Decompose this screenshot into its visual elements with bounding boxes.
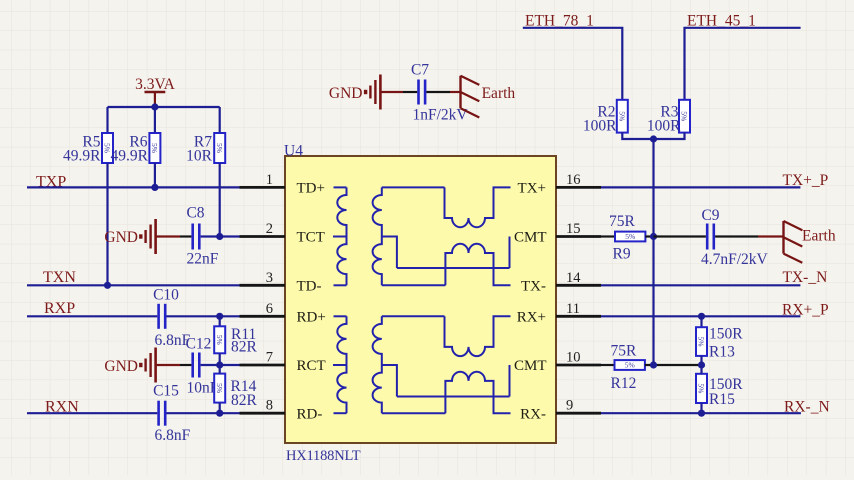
resistor R3 xyxy=(679,100,690,133)
TX secondary bottom wire xyxy=(382,284,446,286)
RX primary winding lower coil xyxy=(337,365,346,413)
svg-text:5%: 5% xyxy=(625,361,635,370)
svg-text:RX+: RX+ xyxy=(517,310,546,326)
wire 3.3VA rail xyxy=(108,106,220,108)
wire R6 top lead xyxy=(154,107,156,133)
pin 7 lead xyxy=(240,364,286,367)
pin 15 lead xyxy=(556,235,601,238)
svg-text:C7: C7 xyxy=(411,62,429,79)
wire C9 to Earth xyxy=(715,235,758,237)
resistor R2 xyxy=(617,100,628,133)
wire to C7 left plate xyxy=(403,91,417,93)
svg-text:7: 7 xyxy=(266,350,273,366)
resistor R7 xyxy=(214,133,225,163)
wire R13 bottom lead xyxy=(700,356,702,365)
junction R15/RX- xyxy=(698,410,705,417)
earth symbol (C9) xyxy=(784,221,803,263)
wire R5 top lead xyxy=(106,107,108,133)
capacitor C9 xyxy=(707,224,714,250)
svg-text:RD+: RD+ xyxy=(297,310,326,326)
resistor R9 xyxy=(615,232,645,242)
svg-text:3.3VA: 3.3VA xyxy=(135,76,176,93)
svg-text:C15: C15 xyxy=(153,383,179,400)
svg-text:14: 14 xyxy=(566,270,581,286)
svg-text:CMT: CMT xyxy=(514,358,547,374)
svg-text:TX+_P: TX+_P xyxy=(783,172,829,189)
resistor R6 xyxy=(149,133,160,163)
RX secondary centre-tap wire xyxy=(382,365,397,397)
junction 3.3VA rail xyxy=(151,103,158,110)
wire R7 bottom lead to TCT node xyxy=(219,163,221,237)
svg-text:5%: 5% xyxy=(697,337,706,347)
wire TX+ row xyxy=(601,186,800,188)
wire R14 bottom lead xyxy=(219,403,221,414)
svg-text:5%: 5% xyxy=(215,383,224,393)
TX common-mode choke upper winding xyxy=(445,187,511,227)
wire to Earth symbol (C9) xyxy=(758,235,784,237)
wire R11 bottom lead xyxy=(219,353,221,365)
junction R12/centre vertical xyxy=(650,361,657,368)
svg-text:8: 8 xyxy=(266,398,273,414)
svg-text:22nF: 22nF xyxy=(187,251,219,268)
svg-text:R12: R12 xyxy=(611,375,637,392)
wire to C8 left plate xyxy=(180,235,191,237)
wire R9 to junction xyxy=(645,235,653,237)
pin 2 lead xyxy=(240,235,286,238)
wire GND to C12 xyxy=(156,364,180,366)
resistor R12 xyxy=(615,360,645,370)
resistor R14 xyxy=(214,374,225,403)
RX primary winding upper coil xyxy=(337,316,346,365)
svg-text:GND: GND xyxy=(104,229,138,246)
svg-text:Earth: Earth xyxy=(482,85,516,102)
svg-text:3: 3 xyxy=(266,270,273,286)
svg-text:11: 11 xyxy=(566,301,580,317)
junction R9/C9/centre vertical xyxy=(650,233,657,240)
svg-text:75R: 75R xyxy=(609,213,636,230)
svg-text:5%: 5% xyxy=(215,143,224,153)
TX primary winding stub wires xyxy=(333,187,347,285)
RX secondary winding coil xyxy=(373,316,382,413)
svg-text:U4: U4 xyxy=(284,143,303,160)
TX secondary top wire xyxy=(382,186,445,188)
op-amp/IC U4 HX1188NLT block body xyxy=(285,156,556,443)
svg-text:6.8nF: 6.8nF xyxy=(155,427,191,444)
wire GND to C8 xyxy=(156,235,180,237)
junction R2/R3 xyxy=(650,135,657,142)
svg-text:75R: 75R xyxy=(611,343,638,360)
wire R6 bottom lead to TXP xyxy=(154,163,156,187)
wire C10 to pin 6 xyxy=(167,315,240,317)
svg-text:100R: 100R xyxy=(583,118,617,135)
pin 1 lead xyxy=(240,186,286,189)
capacitor C7 xyxy=(419,80,426,105)
wire R14 top lead xyxy=(219,365,221,374)
RX secondary top wire xyxy=(382,315,445,317)
wire ETH_78_1 xyxy=(523,28,623,100)
wire centre vertical to CMT nodes xyxy=(652,139,654,365)
pin 14 lead xyxy=(556,284,601,287)
svg-text:TX+: TX+ xyxy=(518,181,546,197)
svg-text:1nF/2kV: 1nF/2kV xyxy=(413,107,469,124)
svg-text:10R: 10R xyxy=(186,148,213,165)
svg-text:RCT: RCT xyxy=(297,358,326,374)
power symbol 3.3VA xyxy=(145,92,166,107)
wire R12 to junctions xyxy=(645,364,702,366)
svg-text:Earth: Earth xyxy=(802,228,836,245)
svg-text:C12: C12 xyxy=(186,336,212,353)
wire R15 top lead xyxy=(700,365,702,374)
svg-text:9: 9 xyxy=(566,398,573,414)
svg-text:10: 10 xyxy=(566,350,581,366)
svg-text:5%: 5% xyxy=(150,143,159,153)
TX common-mode choke lower winding xyxy=(445,244,510,285)
ground GND (C8) xyxy=(139,219,156,254)
TX primary winding upper coil xyxy=(337,187,346,236)
svg-text:CMT: CMT xyxy=(514,230,547,246)
junction R11/R14/pin7 xyxy=(216,361,223,368)
svg-text:GND: GND xyxy=(329,85,363,102)
junction R7/C8/pin2 xyxy=(216,233,223,240)
svg-text:6: 6 xyxy=(266,301,273,317)
svg-text:TCT: TCT xyxy=(297,230,325,246)
wire R11 top lead xyxy=(219,316,221,326)
resistor R15 xyxy=(696,374,707,403)
TX CMT tap horizontal wire xyxy=(397,267,510,269)
svg-text:1: 1 xyxy=(266,172,273,188)
junction R13/R15 xyxy=(698,361,705,368)
RX CMT vertical wire xyxy=(509,365,511,397)
svg-text:TD+: TD+ xyxy=(297,181,325,197)
wire R5 bottom lead to TXN xyxy=(106,163,108,285)
wire C15 to pin 8 xyxy=(167,412,240,414)
svg-text:82R: 82R xyxy=(231,339,258,356)
svg-text:RD-: RD- xyxy=(297,407,323,423)
RX CMT tap horizontal wire xyxy=(397,396,510,398)
earth symbol (C7) xyxy=(461,76,480,118)
wire to Earth symbol xyxy=(450,91,461,93)
svg-text:C10: C10 xyxy=(153,287,179,304)
svg-text:TXN: TXN xyxy=(43,269,76,286)
RX primary winding stub wires xyxy=(333,316,347,413)
svg-text:HX1188NLT: HX1188NLT xyxy=(286,448,361,464)
pin 9 lead xyxy=(556,412,601,415)
pin 8 lead xyxy=(240,412,286,415)
wire C12 to pin 7 xyxy=(201,364,240,366)
wire ETH_45_1 xyxy=(685,28,801,100)
TX secondary winding coil xyxy=(373,187,382,285)
wire TXP xyxy=(27,186,240,188)
wire GND to C7 xyxy=(380,91,403,93)
svg-text:TX-_N: TX-_N xyxy=(783,269,828,286)
capacitor C8 xyxy=(193,224,200,250)
wire R13 top lead xyxy=(700,316,702,327)
RX secondary bottom wire xyxy=(382,412,446,414)
svg-text:TD-: TD- xyxy=(297,279,322,295)
svg-text:RX+_P: RX+_P xyxy=(782,302,829,319)
junction R6/TXP xyxy=(151,184,158,191)
svg-text:5%: 5% xyxy=(215,335,224,345)
pin 3 lead xyxy=(240,284,286,287)
wire RXP to C10 xyxy=(27,315,157,317)
svg-text:4.7nF/2kV: 4.7nF/2kV xyxy=(701,251,769,268)
wire TXN xyxy=(27,284,240,286)
wire to C12 left plate xyxy=(180,364,191,366)
svg-text:RX-: RX- xyxy=(520,407,546,423)
svg-text:16: 16 xyxy=(566,172,581,188)
svg-text:5%: 5% xyxy=(697,383,706,393)
svg-text:150R: 150R xyxy=(709,326,743,343)
capacitor C15 xyxy=(159,401,166,426)
resistor R11 xyxy=(214,326,225,353)
svg-text:2: 2 xyxy=(266,221,273,237)
resistor R5 xyxy=(102,133,113,163)
pin 6 lead xyxy=(240,315,286,318)
pin 11 lead xyxy=(556,315,601,318)
wire R7 top lead xyxy=(219,107,221,133)
wire pin15 to R9 xyxy=(601,235,615,237)
svg-text:5%: 5% xyxy=(680,111,689,121)
wire TX- row xyxy=(601,284,800,286)
svg-text:GND: GND xyxy=(104,358,138,375)
capacitor C10 xyxy=(159,304,166,329)
svg-text:R15: R15 xyxy=(709,391,735,408)
TX primary winding lower coil xyxy=(337,237,346,286)
svg-text:5%: 5% xyxy=(625,232,635,241)
pin 10 lead xyxy=(556,364,601,367)
svg-text:R13: R13 xyxy=(709,344,735,361)
svg-text:49.9R: 49.9R xyxy=(63,148,101,165)
TX secondary centre-tap wire xyxy=(382,237,397,269)
wire pin10 to R12 xyxy=(601,364,615,366)
wire R15 bottom lead xyxy=(700,403,702,413)
junction R13/RX+ xyxy=(698,313,705,320)
junction R14/RXN xyxy=(216,410,223,417)
ground GND (C7) xyxy=(364,75,381,110)
wire RX+ row xyxy=(601,315,800,317)
wire C8 to pin 2 xyxy=(201,235,240,237)
resistor R13 xyxy=(696,327,707,356)
svg-text:TX-: TX- xyxy=(521,279,546,295)
svg-text:5%: 5% xyxy=(618,111,627,121)
svg-text:C9: C9 xyxy=(701,207,719,224)
capacitor C12 xyxy=(193,353,200,378)
svg-text:15: 15 xyxy=(566,221,581,237)
wire RXN to C15 xyxy=(27,412,157,414)
wire junction to C9 xyxy=(654,235,706,237)
wire RX- row xyxy=(601,412,801,414)
junction R11/RXP xyxy=(216,313,223,320)
wire C7 to Earth xyxy=(426,91,450,93)
junction R5/TXN xyxy=(104,282,111,289)
svg-text:C8: C8 xyxy=(186,205,204,222)
svg-text:49.9R: 49.9R xyxy=(111,148,149,165)
svg-text:82R: 82R xyxy=(231,392,258,409)
RX common-mode choke lower winding xyxy=(445,372,510,414)
svg-text:RX-_N: RX-_N xyxy=(784,399,830,416)
TX CMT vertical wire xyxy=(509,237,511,269)
svg-text:R9: R9 xyxy=(613,246,631,263)
pin 16 lead xyxy=(556,186,601,189)
wire R2/R3 join xyxy=(622,133,684,139)
svg-text:100R: 100R xyxy=(647,118,681,135)
svg-text:RXP: RXP xyxy=(44,300,75,317)
ground GND (C12) xyxy=(139,348,156,383)
RX common-mode choke upper winding xyxy=(445,316,511,356)
